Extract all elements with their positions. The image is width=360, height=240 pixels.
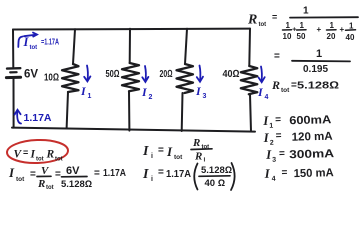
svg-text:10Ω: 10Ω [44,72,59,84]
svg-text:i: i [151,176,153,183]
svg-text:1.17A: 1.17A [166,168,191,180]
svg-text:20Ω: 20Ω [160,68,173,80]
svg-text:5.128Ω: 5.128Ω [201,165,232,176]
svg-text:1.17A: 1.17A [103,167,126,179]
svg-text:1: 1 [88,93,92,100]
svg-text:=: = [158,145,164,156]
svg-text:I: I [30,149,36,161]
svg-text:I: I [8,165,15,180]
svg-text:i: i [204,157,206,164]
svg-text:=: = [279,148,285,159]
svg-text:1: 1 [316,48,322,60]
svg-text:=: = [272,12,277,22]
svg-text:=: = [274,51,280,62]
svg-text:+: + [317,25,322,34]
svg-text:I: I [166,144,173,159]
svg-text:tot: tot [46,185,54,191]
svg-text:V: V [14,149,23,161]
svg-text:50: 50 [297,32,306,41]
svg-text:1: 1 [330,21,335,30]
svg-text:2: 2 [270,140,274,147]
svg-text:600mA: 600mA [289,114,331,127]
svg-text:2: 2 [149,94,153,101]
svg-text:20: 20 [327,32,336,41]
svg-text:120 mA: 120 mA [292,131,333,144]
svg-text:tot: tot [174,154,183,161]
svg-text:5.128Ω: 5.128Ω [61,179,92,190]
svg-text:=: = [30,169,36,180]
svg-text:1: 1 [300,21,305,30]
svg-text:3: 3 [203,93,207,100]
svg-text:I: I [142,144,149,159]
svg-text:150 mA: 150 mA [293,167,333,180]
svg-text:tot: tot [36,157,44,163]
svg-text:=: = [23,148,28,158]
svg-text:1: 1 [349,22,354,31]
svg-text:R: R [37,178,45,190]
svg-text:tot: tot [259,22,267,28]
svg-text:3: 3 [272,157,276,164]
svg-text:R: R [271,78,280,92]
svg-text:0.195: 0.195 [303,64,328,75]
svg-text:R: R [46,149,55,161]
svg-text:i: i [151,153,153,160]
svg-text:R: R [247,13,257,28]
svg-text:tot: tot [16,176,25,183]
svg-text:=: = [158,167,164,178]
svg-text:6V: 6V [24,69,38,81]
svg-text:+: + [340,25,345,34]
svg-text:4: 4 [265,94,269,101]
svg-text:50Ω: 50Ω [106,68,120,80]
svg-text:tot: tot [281,87,290,94]
svg-text:6V: 6V [66,165,80,177]
svg-text:R: R [192,137,200,149]
svg-text:1: 1 [286,21,291,30]
svg-text:=1.17A: =1.17A [41,37,59,47]
svg-text:=: = [275,130,281,141]
svg-text:10: 10 [283,32,292,41]
svg-text:5.128Ω: 5.128Ω [297,80,339,92]
svg-text:tot: tot [30,45,38,51]
svg-text:=: = [275,114,281,125]
svg-text:300mA: 300mA [289,148,334,161]
svg-text:40: 40 [346,33,355,42]
svg-text:1: 1 [303,6,309,17]
svg-text:1: 1 [269,123,273,130]
svg-text:I: I [142,167,149,182]
svg-text:R: R [194,151,202,163]
svg-text:=: = [281,167,287,178]
svg-text:1.17A: 1.17A [24,113,52,124]
svg-text:40 Ω: 40 Ω [205,178,226,189]
svg-text:40Ω: 40Ω [223,68,240,80]
svg-text:4: 4 [272,176,276,183]
svg-text:=: = [94,168,100,179]
svg-text:tot: tot [55,157,63,163]
